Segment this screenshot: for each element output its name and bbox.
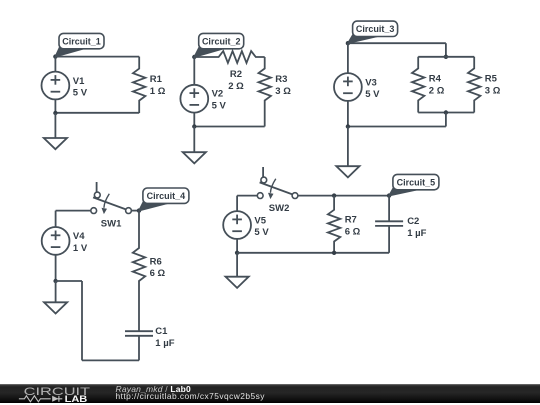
svg-text:1 V: 1 V <box>73 243 88 254</box>
svg-text:R6: R6 <box>150 256 162 267</box>
svg-text:2 Ω: 2 Ω <box>228 81 244 92</box>
svg-text:Circuit_2: Circuit_2 <box>202 36 241 46</box>
svg-text:C1: C1 <box>155 326 168 337</box>
svg-text:SW2: SW2 <box>269 203 290 214</box>
svg-text:C2: C2 <box>407 216 419 227</box>
svg-text:R2: R2 <box>230 69 242 80</box>
svg-text:R5: R5 <box>485 74 498 85</box>
svg-text:V3: V3 <box>365 77 377 88</box>
svg-text:1 Ω: 1 Ω <box>150 86 166 97</box>
svg-text:LAB: LAB <box>65 395 88 403</box>
svg-text:2 Ω: 2 Ω <box>429 85 445 96</box>
svg-text:5 V: 5 V <box>212 100 227 111</box>
svg-text:Circuit_1: Circuit_1 <box>62 36 101 46</box>
svg-text:V1: V1 <box>73 76 85 87</box>
svg-text:6 Ω: 6 Ω <box>150 268 166 279</box>
svg-text:R7: R7 <box>345 215 357 226</box>
svg-text:R3: R3 <box>275 74 287 85</box>
svg-text:5 V: 5 V <box>73 88 88 99</box>
svg-text:V2: V2 <box>212 89 224 100</box>
svg-text:SW1: SW1 <box>101 219 122 230</box>
svg-text:V4: V4 <box>73 231 85 242</box>
svg-text:R1: R1 <box>150 74 163 85</box>
svg-text:5 V: 5 V <box>254 227 269 238</box>
svg-text:1 µF: 1 µF <box>407 228 426 239</box>
svg-text:Circuit_4: Circuit_4 <box>147 191 186 201</box>
svg-text:6 Ω: 6 Ω <box>345 227 361 238</box>
svg-text:Circuit_5: Circuit_5 <box>397 177 436 187</box>
svg-text:5 V: 5 V <box>365 89 380 100</box>
svg-text:Circuit_3: Circuit_3 <box>356 24 395 34</box>
svg-text:R4: R4 <box>429 74 442 85</box>
svg-text:3 Ω: 3 Ω <box>275 86 291 97</box>
svg-text:V5: V5 <box>254 215 266 226</box>
svg-text:1 µF: 1 µF <box>155 338 174 349</box>
svg-text:3 Ω: 3 Ω <box>485 85 501 96</box>
